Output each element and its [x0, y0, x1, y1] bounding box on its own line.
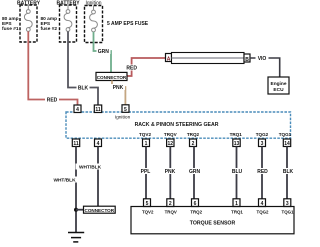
wire GRN pin2 to TS pin6 — [193, 147, 195, 199]
svg-text:TRQV: TRQV — [165, 209, 177, 214]
torque sensor box — [131, 207, 294, 234]
pin 13 (gear bottom) — [233, 139, 240, 147]
TS pin 2 — [167, 199, 174, 207]
svg-text:ECU: ECU — [273, 87, 284, 93]
pin 11 (bottom left) — [72, 139, 79, 147]
svg-text:CONNECTOR: CONNECTOR — [97, 75, 127, 80]
junction dot — [74, 208, 78, 212]
fuse F2 (80 amp EPS fuse #2) — [60, 5, 77, 42]
fuse F3 (5 AMP EPS FUSE, ignition) — [85, 6, 103, 43]
svg-text:PPL: PPL — [141, 169, 151, 175]
wire label GRN (lower) — [187, 168, 202, 175]
svg-text:2: 2 — [192, 141, 195, 147]
svg-text:TRQ2: TRQ2 — [190, 209, 202, 214]
svg-text:PNK: PNK — [165, 169, 176, 175]
pin 1 (gear bottom) — [143, 139, 150, 147]
svg-text:GRN: GRN — [189, 169, 201, 175]
wire label RED (lower) — [256, 168, 270, 175]
wire junction to connector — [76, 209, 84, 211]
TS pin 6 — [192, 199, 199, 207]
svg-text:TQV2: TQV2 — [139, 132, 151, 137]
svg-text:GRN: GRN — [98, 49, 110, 55]
wire PPL pin1 to TS pin5 — [145, 147, 147, 199]
ground — [68, 233, 84, 242]
svg-text:Engine: Engine — [271, 81, 287, 87]
pin 4 (top) — [74, 105, 81, 113]
svg-text:1: 1 — [145, 141, 148, 147]
svg-text:11: 11 — [95, 107, 101, 113]
svg-text:12: 12 — [168, 141, 174, 147]
wire WHT/BLK pin 4 to connector — [97, 147, 99, 207]
wire label BLK — [77, 85, 90, 92]
svg-text:5: 5 — [124, 107, 127, 113]
wire BLK pin14 to TS pin3 — [286, 147, 288, 199]
svg-text:TRQV: TRQV — [164, 132, 178, 137]
svg-text:TQV2: TQV2 — [142, 209, 154, 214]
TS pin 1 — [233, 199, 240, 207]
wire BLK from fuse F2 to pin 11 — [68, 31, 98, 105]
wire PNK pin12 to TS pin2 — [169, 147, 171, 199]
svg-text:11: 11 — [73, 141, 79, 147]
svg-text:TRQ1: TRQ1 — [231, 209, 243, 214]
svg-text:RACK & PINION STEERING GEAR: RACK & PINION STEERING GEAR — [135, 122, 219, 128]
wire BLU pin13 to TS pin1 — [236, 147, 238, 199]
wire label WHT/BLK (left) — [50, 177, 79, 184]
pin 11 (top) — [94, 105, 101, 113]
svg-text:A: A — [167, 57, 171, 63]
svg-text:4: 4 — [76, 107, 79, 113]
wire label WHT/BLK (right) — [76, 164, 105, 171]
wire GRN from fuse F3 to connector — [94, 32, 112, 73]
svg-text:TQG1: TQG1 — [282, 209, 295, 214]
pin 5 (top) — [122, 105, 129, 113]
wire WHT/BLK pin 11 to ground — [75, 147, 77, 233]
terminal A — [166, 54, 172, 63]
wire label RED — [45, 97, 59, 104]
svg-text:TQG2: TQG2 — [257, 209, 270, 214]
TS pin 3 — [284, 199, 291, 207]
pin 4 (bottom left) — [95, 139, 102, 147]
svg-text:14: 14 — [284, 141, 290, 147]
pin 3 (gear bottom) — [259, 139, 266, 147]
wire label VIO — [256, 55, 269, 62]
wire label PNK (lower) — [163, 168, 178, 175]
svg-text:TQG1: TQG1 — [279, 132, 292, 137]
wire label BLU — [230, 168, 244, 175]
wire PNK from connector to pin 5 — [112, 81, 125, 106]
terminal B — [244, 54, 250, 63]
wire label PPL — [139, 168, 153, 175]
svg-text:BLK: BLK — [283, 169, 294, 175]
rack & pinion steering gear (dashed enclosure) — [66, 112, 291, 138]
svg-text:WHT/BLK: WHT/BLK — [79, 165, 102, 171]
svg-text:TQG2: TQG2 — [256, 132, 269, 137]
connector (upper) — [96, 72, 127, 80]
connector (lower) — [84, 206, 116, 213]
svg-text:3: 3 — [261, 141, 264, 147]
svg-text:PNK: PNK — [113, 85, 124, 91]
svg-text:TRQ1: TRQ1 — [230, 132, 243, 137]
svg-text:5 AMP EPS FUSE: 5 AMP EPS FUSE — [107, 21, 149, 27]
wire RED pin3 to TS pin4 — [261, 147, 263, 199]
pin 2 (gear bottom) — [190, 139, 197, 147]
wire label BLK (lower) — [281, 168, 295, 175]
wire label GRN — [97, 48, 111, 55]
wire RED from connector to A — [127, 58, 166, 76]
pin 14 (gear bottom) — [283, 139, 290, 147]
Engine ECU — [268, 77, 289, 94]
wire VIO from B to Engine ECU — [250, 58, 280, 77]
svg-text:4: 4 — [97, 141, 100, 147]
svg-text:BLK: BLK — [78, 86, 89, 92]
svg-text:RED: RED — [126, 66, 137, 72]
TS pin 5 — [144, 199, 151, 207]
svg-text:TRQ2: TRQ2 — [187, 132, 200, 137]
TS pin 4 — [259, 199, 266, 207]
svg-text:TORQUE SENSOR: TORQUE SENSOR — [190, 221, 236, 227]
wire label PNK — [111, 84, 125, 91]
svg-text:RED: RED — [47, 98, 58, 104]
svg-text:VIO: VIO — [258, 56, 267, 62]
fuse F1 (80 amp EPS fuse #1) — [20, 5, 37, 42]
svg-text:BLU: BLU — [232, 169, 243, 175]
svg-text:Ignition: Ignition — [115, 115, 131, 121]
wire label RED (connector) — [125, 65, 139, 72]
svg-text:CONNECTOR: CONNECTOR — [85, 208, 115, 213]
shielded cable (noise suppressor) — [172, 53, 245, 64]
svg-text:RED: RED — [257, 169, 268, 175]
svg-text:WHT/BLK: WHT/BLK — [53, 178, 76, 184]
pin 12 (gear bottom) — [167, 139, 174, 147]
svg-text:B: B — [245, 57, 249, 63]
svg-text:13: 13 — [234, 141, 240, 147]
wire RED from fuse F1 to pin 4 — [28, 31, 77, 105]
